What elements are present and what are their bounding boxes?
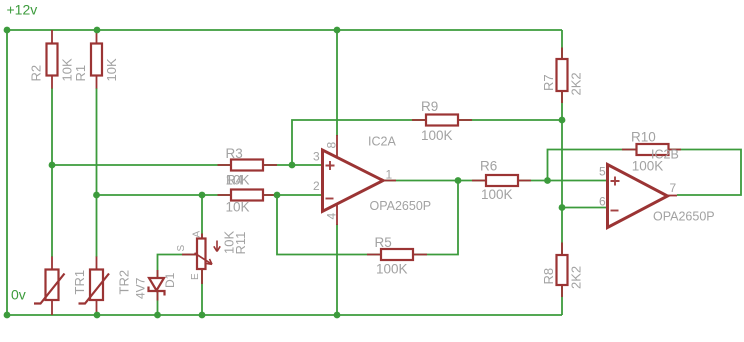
wire R11 bottom [201, 269, 203, 315]
wire left rail x=7 [6, 30, 8, 315]
thermistor TR2 [90, 270, 103, 301]
resistor R1 [91, 44, 102, 76]
svg-text:R1: R1 [73, 65, 88, 82]
resistor R3 [231, 160, 263, 171]
resistor R1 pins [96, 30, 98, 89]
svg-text:R6: R6 [480, 158, 497, 173]
op-amp IC2B minus sign [611, 210, 619, 212]
wire R8 bottom to rail [561, 285, 563, 316]
zener diode D1 triangle [149, 278, 164, 291]
thermistor TR1 [46, 270, 59, 301]
resistor R8 pins [561, 243, 563, 298]
svg-text:R4: R4 [226, 172, 244, 187]
resistor R4 pins [218, 194, 278, 196]
node D1 bottom [154, 312, 161, 319]
node feedback pin5 [544, 177, 551, 184]
svg-text:1: 1 [386, 168, 393, 182]
wire R11 top [201, 195, 203, 239]
svg-text:8: 8 [325, 142, 339, 149]
svg-text:TR2: TR2 [117, 270, 132, 295]
svg-text:5: 5 [599, 165, 606, 179]
node TR2 bottom [94, 312, 101, 319]
svg-text:R9: R9 [421, 99, 438, 114]
wire output pin1 to pin5 y=180.5 [383, 180, 608, 182]
wire R5 feedback loop [277, 181, 458, 255]
wire R9 branch [292, 120, 562, 165]
resistor R2 pins [51, 30, 53, 89]
op-amp IC2B plus sign [611, 177, 620, 186]
zener diode D1 pins [157, 270, 159, 301]
op-amp IC2A minus sign [326, 198, 334, 200]
svg-text:R8: R8 [541, 268, 556, 285]
svg-text:R2: R2 [29, 65, 44, 82]
svg-text:R10: R10 [631, 130, 656, 145]
thermistor TR1 diagonal [34, 274, 65, 304]
svg-text:+12v: +12v [7, 2, 38, 18]
wire input line y=195 to pin2 [97, 194, 323, 196]
wire pin8 supply x=337 [336, 30, 338, 136]
svg-text:2: 2 [313, 179, 320, 193]
svg-text:D1: D1 [163, 272, 177, 288]
wire pin6 line y=207.5 [562, 207, 608, 209]
wire R11 wiper to D1 [158, 255, 198, 279]
zener diode D1 cathode bar [149, 287, 165, 296]
svg-text:3: 3 [313, 150, 320, 164]
svg-text:R7: R7 [541, 74, 556, 91]
svg-text:6: 6 [599, 195, 606, 209]
resistor R5 [381, 249, 413, 260]
svg-text:OPA2650P: OPA2650P [370, 199, 432, 213]
node +12v left [4, 27, 11, 34]
resistor R8 [557, 255, 568, 285]
wire R1 column [96, 88, 98, 257]
svg-text:100K: 100K [376, 261, 408, 276]
svg-text:10K: 10K [226, 199, 250, 214]
node pin4 bottom [334, 312, 341, 319]
resistor R10 [637, 144, 669, 155]
potentiometer R11 adjust arrow [216, 241, 218, 251]
op-amp U2 IC2B pin stub [668, 195, 678, 197]
wire R7-R8 divider x=562 [561, 91, 563, 255]
wire +12v rail y=30 [7, 29, 562, 31]
node R3 left [49, 162, 56, 169]
resistor R9 [426, 115, 458, 126]
resistor R4 [231, 190, 263, 201]
svg-text:IC2B: IC2B [651, 148, 679, 162]
svg-text:R11: R11 [233, 232, 248, 255]
svg-text:100K: 100K [421, 128, 453, 143]
resistor R9 pins [412, 119, 472, 121]
node R7 bottom [559, 117, 566, 124]
wire D1 bottom [157, 292, 159, 315]
node R1 top [94, 27, 101, 34]
thermistor TR1 pins [51, 257, 53, 316]
node 0v left [4, 312, 11, 319]
potentiometer R11 adjust arrowhead [214, 246, 220, 251]
svg-text:TR1: TR1 [72, 270, 87, 295]
thermistor TR2 diagonal [79, 274, 110, 304]
svg-text:0v: 0v [11, 287, 26, 303]
svg-text:10K: 10K [104, 58, 119, 81]
node R11 top tap [199, 192, 206, 199]
svg-text:S: S [176, 245, 187, 252]
node R11 bottom [199, 312, 206, 319]
svg-text:4: 4 [325, 213, 339, 220]
wire bottom 0v rail y=315 [7, 314, 562, 316]
node pin8 tap [334, 27, 341, 34]
node R1 bottom rail [93, 192, 100, 199]
resistor R5 pins [367, 254, 427, 256]
resistor R3 pins [218, 164, 278, 166]
svg-text:E: E [190, 273, 201, 280]
resistor R6 pins [472, 180, 531, 182]
op-amp U1 IC2A triangle [323, 150, 384, 211]
node output IC2A [455, 177, 462, 184]
svg-text:IC2A: IC2A [368, 135, 396, 149]
svg-text:R3: R3 [226, 146, 243, 161]
wire pin4 ground x=337 [336, 224, 338, 315]
resistor R7 pins [561, 48, 563, 104]
svg-text:R5: R5 [375, 235, 392, 250]
potentiometer R11 wiper [195, 253, 212, 264]
node R5 tap pin2 [274, 192, 281, 199]
thermistor TR2 pins [96, 257, 98, 316]
resistor R10 pins [622, 149, 681, 151]
op-amp IC2A plus sign [326, 161, 335, 170]
svg-text:100K: 100K [481, 187, 513, 202]
wire R2 column [51, 88, 53, 257]
svg-text:A: A [192, 231, 203, 238]
svg-text:2K2: 2K2 [569, 266, 584, 289]
wire R10 feedback loop [548, 150, 742, 196]
potentiometer R11 wiper arrowhead [206, 259, 212, 264]
resistor R7 [557, 59, 568, 91]
svg-text:2K2: 2K2 [569, 72, 584, 95]
resistor R2 [47, 44, 58, 76]
op-amp U1 IC2A pin stubs [337, 135, 396, 225]
wire input line y=165 to pin3 [52, 164, 323, 166]
potentiometer R11 S pin stub [182, 254, 197, 256]
node pin6 tap [559, 204, 566, 211]
wire R7 drop x=562 [561, 30, 563, 59]
potentiometer R11 [197, 239, 206, 270]
op-amp U2 IC2B triangle [608, 165, 668, 228]
node R9 tap pin3 [289, 162, 296, 169]
svg-text:OPA2650P: OPA2650P [653, 210, 715, 224]
svg-text:4V7: 4V7 [134, 277, 148, 299]
svg-text:7: 7 [670, 181, 677, 195]
potentiometer R11 pins [201, 234, 203, 285]
resistor R6 [486, 175, 518, 186]
